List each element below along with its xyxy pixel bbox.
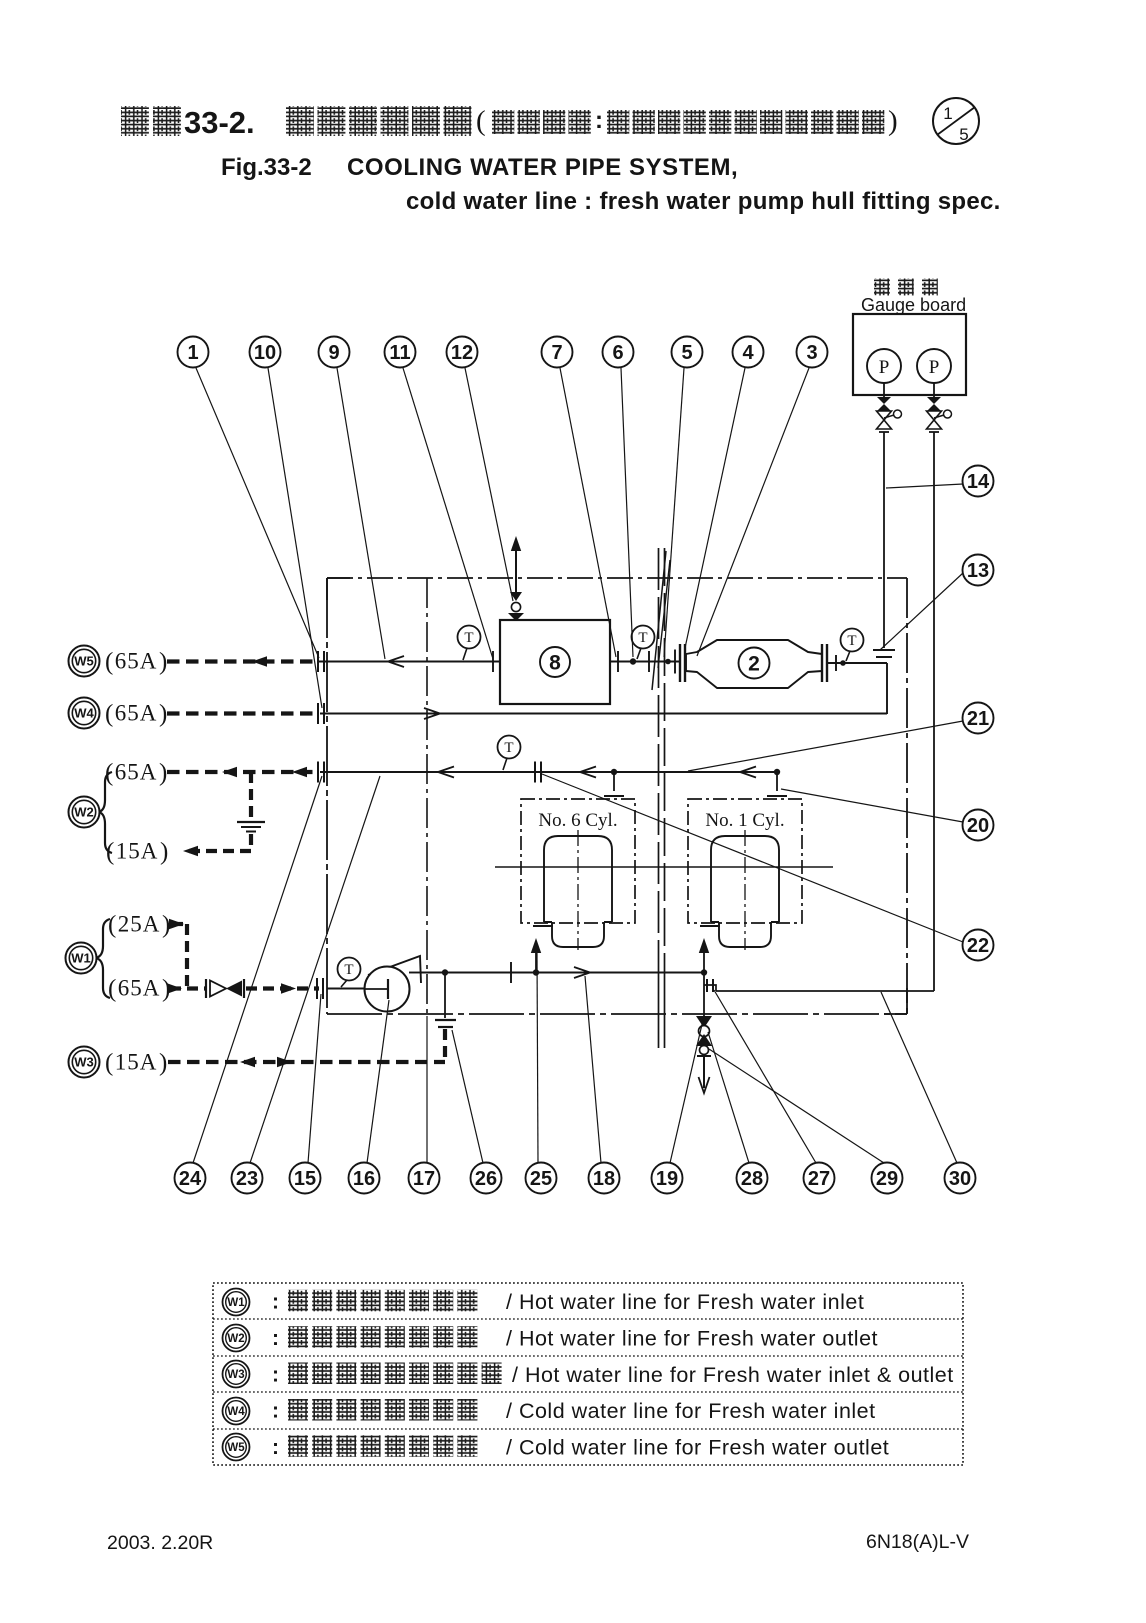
svg-text:W1: W1 — [227, 1297, 245, 1309]
svg-text:No. 6 Cyl.: No. 6 Cyl. — [538, 810, 617, 831]
vent arrow up — [511, 536, 521, 551]
stub no6 head — [613, 772, 615, 791]
svg-text:W1: W1 — [71, 951, 91, 966]
svg-text:16: 16 — [353, 1168, 375, 1190]
balloon 29 — [872, 1163, 903, 1194]
balloon 15 — [290, 1163, 321, 1194]
W1 bracket — [96, 919, 110, 998]
title jp: low temp water line — [492, 110, 591, 134]
svg-text:): ) — [159, 1050, 167, 1077]
flange — [648, 651, 650, 672]
W1-65A arrow right2 — [281, 983, 296, 993]
svg-text:19: 19 — [656, 1168, 678, 1190]
leader 21 — [688, 721, 963, 771]
svg-text:T: T — [504, 740, 513, 756]
svg-text:No. 1 Cyl.: No. 1 Cyl. — [705, 810, 784, 831]
pipe vessel to riser — [827, 662, 887, 664]
leader 10 — [268, 368, 322, 708]
balloon 26 — [471, 1163, 502, 1194]
svg-text:(: ( — [108, 912, 116, 939]
thermostat vessel (item 2) — [686, 640, 822, 688]
svg-text:(: ( — [106, 839, 114, 866]
svg-text:2: 2 — [748, 653, 760, 676]
vessel right flange — [822, 644, 827, 682]
drain branch down — [444, 973, 446, 1019]
connection symbol W5 — [69, 646, 100, 677]
balloon 10 — [250, 337, 281, 368]
W3 arrow left — [240, 1057, 255, 1067]
connection symbol W3 — [69, 1047, 100, 1078]
engine boundary bottom — [327, 1013, 907, 1015]
pump suction pipe — [327, 988, 365, 990]
svg-text:7: 7 — [551, 342, 562, 364]
thermometer T cooler outlet — [458, 626, 481, 661]
balloon 24 — [175, 1163, 206, 1194]
W2 branch down — [249, 772, 253, 818]
feed arrow up no1 — [699, 938, 709, 953]
leader 12 — [465, 368, 513, 601]
svg-text:W3: W3 — [227, 1369, 244, 1381]
flow arrow left2 — [580, 767, 596, 778]
W1-25A arrow right — [169, 919, 184, 929]
valve bottom circle — [700, 1046, 709, 1055]
svg-text:9: 9 — [328, 342, 339, 364]
leader 25 — [537, 952, 538, 1163]
svg-text:24: 24 — [179, 1168, 202, 1190]
break line b lower — [664, 962, 666, 1048]
svg-text:): ) — [159, 649, 167, 676]
thermometer T pump suction — [338, 958, 361, 988]
title jp: FuZu — [121, 106, 181, 136]
no1 branch down — [703, 973, 705, 1017]
svg-text:(: ( — [105, 1050, 113, 1077]
svg-text:(: ( — [105, 649, 113, 676]
svg-text:W4: W4 — [227, 1406, 245, 1418]
junction T tap — [840, 660, 846, 666]
svg-text:15A: 15A — [115, 1050, 158, 1075]
balloon 13 — [963, 555, 994, 586]
flange after cooler — [617, 651, 619, 672]
pipe W4 dashed — [167, 711, 319, 715]
stop valve W1 — [210, 981, 242, 997]
balloon 17 — [409, 1163, 440, 1194]
pipe pump discharge — [421, 972, 704, 974]
engine boundary right — [906, 578, 908, 1014]
svg-text:/ Hot water line for Fresh wat: / Hot water line for Fresh water inlet — [506, 1290, 864, 1314]
svg-text:65A: 65A — [118, 976, 161, 1001]
svg-text:6: 6 — [612, 342, 623, 364]
cyl centerline No. 1 Cyl. — [744, 830, 746, 950]
svg-text:11: 11 — [389, 342, 410, 364]
svg-text:18: 18 — [593, 1168, 615, 1190]
hull flange W5 — [318, 651, 324, 672]
pressure gauge P — [867, 349, 901, 397]
break line b upper — [664, 548, 666, 962]
svg-text:10: 10 — [254, 342, 276, 364]
svg-text:T: T — [847, 633, 856, 649]
W2-65A arrow left — [222, 767, 237, 777]
svg-text:2003. 2.20R: 2003. 2.20R — [107, 1532, 213, 1554]
branch fitting (item 27) — [704, 979, 716, 992]
cylinder box No. 6 Cyl. — [521, 799, 635, 923]
balloon 7 — [542, 337, 573, 368]
leader 19 — [670, 1020, 703, 1163]
W5 arrow left — [252, 656, 267, 666]
leader 5 — [664, 368, 684, 657]
svg-text:8: 8 — [549, 652, 561, 675]
legend W4 jp — [288, 1399, 477, 1421]
svg-text:W5: W5 — [227, 1442, 245, 1454]
gauge valve — [877, 397, 902, 432]
feed stub no1 — [703, 944, 705, 973]
balloon 3 — [797, 337, 828, 368]
cylinder box No. 1 Cyl. — [688, 799, 802, 923]
pipe cooler inlet from vessel — [610, 661, 681, 663]
stub no1 head — [776, 772, 778, 791]
sheet number circle 1/5 — [933, 98, 979, 144]
svg-text:65A: 65A — [115, 649, 158, 674]
title jp: fresh water pump hull spec — [607, 110, 884, 134]
svg-text::: : — [595, 107, 603, 134]
balloon 27 — [804, 1163, 835, 1194]
leader 9 — [337, 368, 385, 659]
boundary corner v — [906, 988, 908, 1014]
balloon 6 — [603, 337, 634, 368]
break slash top — [652, 551, 666, 690]
balloon 4 — [733, 337, 764, 368]
legend W2 symbol — [223, 1325, 250, 1352]
balloon 19 — [652, 1163, 683, 1194]
flange before cooler — [492, 651, 494, 672]
legend W3 jp — [288, 1363, 502, 1385]
feed arrow up no6 — [531, 938, 541, 953]
leader 16 — [367, 1000, 389, 1163]
svg-text:15A: 15A — [116, 839, 159, 864]
vent valve — [508, 592, 524, 621]
engine boundary left — [326, 578, 328, 1014]
thermometer T vessel inlet — [841, 629, 864, 662]
balloon 11 — [385, 337, 416, 368]
thermometer T manifold — [498, 736, 521, 771]
stub no1 end plate — [767, 795, 787, 797]
svg-text:1: 1 — [943, 104, 952, 123]
gauge pipe P1 down — [883, 432, 885, 648]
svg-text::: : — [272, 1291, 279, 1314]
balloon 12 — [447, 337, 478, 368]
svg-text::: : — [272, 1327, 279, 1350]
pipe cooler outlet — [319, 661, 500, 663]
hull flange W4 — [318, 703, 324, 724]
W1-25A dash — [172, 922, 187, 926]
leader 24 — [193, 776, 322, 1163]
valve flange left — [205, 979, 207, 998]
svg-text:/ Hot water line for Fresh wat: / Hot water line for Fresh water outlet — [506, 1326, 878, 1350]
svg-text:5: 5 — [681, 342, 692, 364]
svg-text:25A: 25A — [118, 912, 161, 937]
svg-text:65A: 65A — [115, 701, 158, 726]
pipe size label 65A — [108, 976, 170, 1003]
balloon 23 — [232, 1163, 263, 1194]
pipe size label 65A — [105, 649, 167, 676]
flange on discharge — [510, 962, 512, 983]
gauge valve — [927, 397, 952, 432]
legend W3 symbol — [223, 1361, 250, 1388]
W1-65A arrow right — [167, 983, 182, 993]
svg-text:17: 17 — [413, 1168, 435, 1190]
inner boundary line — [426, 578, 428, 1014]
break line a lower — [658, 962, 660, 1048]
connection symbol W2 — [69, 797, 100, 828]
connection symbol W4 — [69, 698, 100, 729]
junction at break line — [665, 659, 671, 665]
pipe size label 15A — [106, 839, 168, 866]
balloon 30 — [945, 1163, 976, 1194]
svg-text:15: 15 — [294, 1168, 316, 1190]
svg-text:(: ( — [108, 976, 116, 1003]
leader 11 — [403, 368, 493, 659]
flange at vessel inlet — [674, 650, 676, 674]
svg-text:W2: W2 — [74, 805, 94, 820]
gauge pipe P2 down — [933, 432, 935, 991]
engine boundary top — [327, 577, 907, 579]
leader 6 — [621, 368, 633, 657]
pipe size label 65A — [105, 760, 167, 787]
svg-text:W2: W2 — [227, 1333, 244, 1345]
leader 20 — [781, 789, 963, 822]
flow arrow left — [388, 656, 404, 667]
legend W1 jp — [288, 1290, 477, 1312]
svg-text:(: ( — [105, 701, 113, 728]
drain symbol — [237, 822, 265, 832]
svg-text:cold water line : fresh water: cold water line : fresh water pump hull … — [406, 188, 1001, 215]
junction no6 feed — [533, 969, 539, 975]
legend W2 jp — [288, 1326, 477, 1348]
cylinder liner No. 6 Cyl. — [544, 836, 612, 947]
junction no1 head — [774, 769, 780, 775]
boundary corner h — [884, 1013, 907, 1015]
legend W1 symbol — [223, 1289, 250, 1316]
pipe W2-65A dashed — [167, 770, 319, 774]
boundary corner tl2 — [327, 577, 350, 579]
balloon 25 — [526, 1163, 557, 1194]
inlet tick No. 1 Cyl. — [700, 925, 720, 927]
drain fitting — [435, 1020, 456, 1027]
valve flange right — [243, 979, 245, 998]
svg-text:W4: W4 — [74, 706, 94, 721]
connection symbol W1 — [66, 943, 97, 974]
svg-text:65A: 65A — [115, 760, 158, 785]
overboard arrow down — [699, 1077, 710, 1093]
vessel left flange — [680, 644, 685, 682]
leader 17 — [426, 1016, 428, 1163]
svg-text::: : — [272, 1400, 279, 1423]
balloon 16 — [349, 1163, 380, 1194]
label 2 in vessel — [739, 648, 770, 679]
svg-text:25: 25 — [530, 1168, 552, 1190]
leader 28 — [708, 1032, 749, 1163]
flow arrow left3 — [740, 767, 756, 778]
valve bottom flange — [697, 1055, 711, 1057]
W2-15A dashed — [183, 849, 251, 853]
svg-text:T: T — [638, 630, 647, 646]
svg-text:22: 22 — [967, 935, 989, 957]
pipe W5 dashed — [167, 659, 319, 663]
flow arrow right — [424, 708, 440, 719]
svg-text:1: 1 — [187, 342, 198, 364]
junction no6 head — [611, 769, 617, 775]
leader 27 — [714, 990, 816, 1163]
balloon 14 — [963, 466, 994, 497]
svg-text:21: 21 — [967, 708, 989, 730]
flange pair on manifold — [535, 762, 541, 783]
leader 15 — [308, 994, 321, 1163]
camshaft centerline — [495, 866, 833, 868]
stub no6 end plate — [604, 795, 624, 797]
leader 13 — [880, 573, 963, 650]
leader 29 — [709, 1049, 884, 1163]
pipe cold inlet — [320, 713, 887, 715]
balloon 21 — [963, 703, 994, 734]
leader 7 — [560, 368, 616, 657]
balloon 28 — [737, 1163, 768, 1194]
svg-text:/ Cold water line for Fresh wa: / Cold water line for Fresh water outlet — [506, 1436, 889, 1460]
flange at vessel outlet — [835, 655, 837, 671]
svg-text:): ) — [159, 760, 167, 787]
feed stub no6 — [535, 944, 537, 973]
svg-text:P: P — [929, 357, 940, 378]
balloon 20 — [963, 810, 994, 841]
inlet tick No. 6 Cyl. — [533, 925, 553, 927]
svg-text:4: 4 — [742, 342, 754, 364]
svg-text:27: 27 — [808, 1168, 830, 1190]
junction no1 feed — [701, 969, 707, 975]
thermometer T vessel outlet — [632, 626, 655, 660]
W3 arrow right — [277, 1057, 292, 1067]
svg-text:12: 12 — [451, 342, 473, 364]
svg-text:23: 23 — [236, 1168, 258, 1190]
leader 1 — [196, 368, 319, 658]
break slash top2 — [658, 560, 670, 668]
overboard valve (item 28) — [696, 1016, 712, 1046]
leader 26 — [452, 1030, 483, 1163]
svg-text:26: 26 — [475, 1168, 497, 1190]
W1-65A dash a — [170, 986, 206, 990]
cooler (item 8) — [500, 620, 610, 704]
label 8 in cooler — [540, 647, 570, 677]
overboard pipe — [703, 1056, 705, 1088]
legend W4 symbol — [223, 1398, 250, 1425]
svg-text:33-2.: 33-2. — [184, 105, 255, 140]
cyl centerline No. 6 Cyl. — [577, 830, 579, 950]
svg-text:20: 20 — [967, 815, 989, 837]
svg-text:Fig.33-2: Fig.33-2 — [221, 154, 312, 181]
svg-text:/ Hot water line for Fresh wat: / Hot water line for Fresh water inlet &… — [512, 1363, 954, 1387]
leader 23 — [250, 776, 380, 1163]
gauge board jp label — [874, 279, 938, 296]
legend table — [213, 1283, 963, 1465]
test fitting (item 13) — [873, 650, 895, 657]
svg-text::: : — [272, 1363, 279, 1386]
balloon 22 — [963, 930, 994, 961]
junction at cooler inlet — [630, 658, 636, 664]
W2-65A arrow left2 — [292, 767, 307, 777]
legend W5 jp — [288, 1435, 477, 1457]
svg-text:30: 30 — [949, 1168, 971, 1190]
W1-25A down — [185, 924, 189, 986]
svg-text:): ) — [159, 701, 167, 728]
leader 3 — [697, 368, 809, 656]
pipe size label 15A — [105, 1050, 167, 1077]
svg-text:29: 29 — [876, 1168, 898, 1190]
W2 bracket — [99, 772, 112, 853]
cylinder liner No. 1 Cyl. — [711, 836, 779, 947]
W1-65A dash b — [246, 986, 319, 990]
break line a upper — [658, 548, 660, 962]
gauge board box — [853, 314, 966, 395]
svg-text:(: ( — [105, 760, 113, 787]
svg-text:5: 5 — [959, 125, 968, 144]
svg-text:T: T — [464, 630, 473, 646]
svg-text:14: 14 — [967, 471, 990, 493]
drain dashed down — [443, 1029, 447, 1062]
legend W5 symbol — [223, 1434, 250, 1461]
hull flange W1 — [317, 978, 323, 999]
pipe W3 dashed — [168, 1060, 445, 1064]
flow arrow left — [438, 767, 454, 778]
svg-text:13: 13 — [967, 560, 989, 582]
svg-text:/ Cold water line for Fresh wa: / Cold water line for Fresh water inlet — [506, 1399, 876, 1423]
leader 22 — [542, 774, 963, 942]
W2 branch down2 — [249, 834, 253, 851]
svg-text:): ) — [160, 839, 168, 866]
balloon 9 — [319, 337, 350, 368]
balloon 5 — [672, 337, 703, 368]
svg-text:Gauge board: Gauge board — [861, 295, 966, 315]
riser pipe — [886, 663, 888, 714]
svg-text:28: 28 — [741, 1168, 763, 1190]
svg-text:W5: W5 — [74, 654, 94, 669]
svg-text:W3: W3 — [74, 1055, 94, 1070]
svg-text:3: 3 — [806, 342, 817, 364]
svg-text:(: ( — [476, 105, 486, 137]
svg-text:): ) — [888, 105, 898, 137]
vent pipe — [515, 540, 517, 592]
leader 4 — [685, 368, 745, 648]
svg-text:P: P — [879, 357, 890, 378]
pipe size label 25A — [108, 912, 170, 939]
W2-15A arrow left — [183, 846, 198, 856]
svg-text:6N18(A)L-V: 6N18(A)L-V — [866, 1531, 969, 1553]
pipe size label 65A — [105, 701, 167, 728]
svg-text:T: T — [344, 962, 353, 978]
leader 14 — [886, 484, 963, 488]
hull flange W2 — [318, 762, 324, 783]
title jp: cooling water pipe system — [286, 106, 471, 136]
flow arrow right — [574, 967, 590, 978]
svg-text:COOLING WATER PIPE SYSTEM,: COOLING WATER PIPE SYSTEM, — [347, 154, 738, 181]
boundary corner tl — [326, 578, 328, 600]
leader 18 — [585, 976, 601, 1163]
balloon 18 — [589, 1163, 620, 1194]
junction drain — [442, 969, 448, 975]
pressure gauge P — [917, 349, 951, 397]
svg-text::: : — [272, 1436, 279, 1459]
leader 30 — [881, 992, 957, 1163]
balloon 1 — [178, 337, 209, 368]
pipe hot outlet manifold — [320, 771, 777, 773]
cooling water pump (item 16) — [365, 956, 422, 1012]
gauge pipe P2 horizontal — [716, 990, 934, 992]
